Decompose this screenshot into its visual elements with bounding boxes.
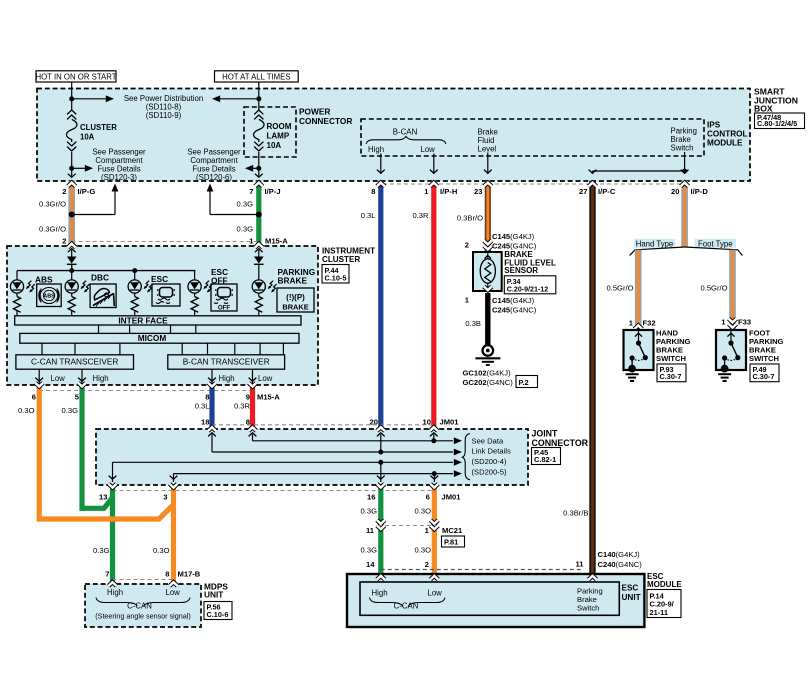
svg-text:JOINT: JOINT (532, 429, 559, 439)
svg-text:INTER FACE: INTER FACE (118, 315, 168, 325)
svg-text:(!)(P): (!)(P) (286, 293, 305, 302)
node parking brake branch (682, 169, 687, 174)
svg-text:DBC: DBC (91, 273, 109, 283)
svg-text:JM01: JM01 (440, 418, 460, 427)
node HOT IN ON OR START (36, 71, 116, 82)
svg-text:(SD120-6): (SD120-6) (196, 173, 232, 182)
svg-text:9: 9 (246, 393, 250, 402)
icon ABS warning lamp (37, 284, 62, 307)
connector line JM01 top (212, 424, 434, 426)
wire 0.3O cluster joiner (39, 506, 172, 519)
svg-text:0.3O: 0.3O (18, 406, 35, 415)
svg-text:ESC: ESC (622, 584, 639, 593)
wire 0.3G joint to ESC (378, 485, 383, 574)
label Foot Type (695, 239, 736, 248)
indicator LED ABS (16, 271, 18, 280)
node fuse details tap left (69, 166, 74, 171)
svg-text:2: 2 (425, 560, 429, 569)
svg-text:High: High (219, 374, 235, 383)
svg-text:I/P-G: I/P-G (78, 187, 96, 196)
svg-text:B-CAN TRANSCEIVER: B-CAN TRANSCEIVER (183, 356, 270, 366)
svg-text:0.3R: 0.3R (234, 402, 251, 411)
svg-text:Switch: Switch (671, 144, 694, 153)
connector line JM01 bottom (113, 490, 435, 492)
wire B-CAN Low rail (pin 8) (252, 434, 254, 441)
svg-text:HOT IN ON OR START: HOT IN ON OR START (35, 73, 116, 82)
svg-text:2: 2 (62, 187, 66, 196)
svg-text:C.20-9/21-12: C.20-9/21-12 (507, 285, 548, 293)
wire B-CAN High to pin 8 (380, 154, 382, 175)
smart junction box (SJB) enclosure (37, 89, 750, 182)
svg-text:C.30-7: C.30-7 (660, 372, 682, 381)
svg-text:0.3L: 0.3L (195, 402, 210, 411)
svg-text:0.3G: 0.3G (62, 406, 79, 415)
wire branch arrow up to fuse note left (72, 214, 115, 216)
wire C-CAN Low rail (pin 3) (174, 473, 454, 475)
svg-text:11: 11 (366, 526, 375, 535)
icon DBC downhill brake (90, 284, 116, 308)
svg-text:6: 6 (32, 393, 36, 402)
svg-text:CONTROL: CONTROL (707, 130, 747, 139)
svg-text:Low: Low (166, 588, 181, 597)
svg-text:MICOM: MICOM (138, 333, 167, 343)
block C-CAN TRANSCEIVER (16, 355, 134, 369)
wire 0.3L B-CAN High (378, 181, 383, 429)
svg-text:2: 2 (62, 237, 66, 246)
node fuse details tap right (256, 166, 261, 171)
indicator LED PARK (252, 280, 265, 293)
wire C-CAN High rail (pin 13) (113, 461, 454, 463)
svg-text:13: 13 (99, 493, 107, 502)
node rail joint 6 (432, 471, 437, 476)
wire pin 16 drop (380, 462, 382, 482)
svg-text:8: 8 (205, 393, 209, 402)
wire 0.3Br/O brake fluid level (485, 181, 491, 252)
svg-text:0.3Br/O: 0.3Br/O (457, 214, 483, 223)
svg-text:High: High (372, 589, 388, 598)
svg-text:0.3G: 0.3G (361, 507, 378, 516)
icon parking brake lamp (277, 288, 314, 312)
svg-text:Switch: Switch (577, 604, 599, 613)
IPS control module enclosure (361, 119, 704, 156)
ESC module enclosure (347, 574, 644, 627)
node I/P-G junction (69, 212, 75, 218)
svg-text:(SD120-3): (SD120-3) (101, 173, 137, 182)
svg-text:3: 3 (163, 493, 167, 502)
svg-text:C140(G4KJ): C140(G4KJ) (598, 550, 641, 559)
svg-text:C245(G4NC): C245(G4NC) (492, 306, 537, 315)
svg-text:MODULE: MODULE (647, 580, 682, 589)
wire arrow to See Power Distribution right (220, 98, 259, 100)
svg-text:0.3Gr/O: 0.3Gr/O (39, 225, 66, 234)
wire 0.3G cluster C-CAN High (79, 385, 84, 511)
connector MC21 orange (430, 520, 438, 524)
wire B-CAN Low out (252, 369, 254, 384)
resistor below LED ESCOFF (191, 297, 198, 313)
svg-text:MC21: MC21 (442, 526, 463, 535)
svg-text:Low: Low (421, 145, 436, 154)
svg-text:I/P-H: I/P-H (440, 187, 457, 196)
svg-text:C145(G4KJ): C145(G4KJ) (492, 232, 535, 241)
svg-text:Low: Low (51, 374, 66, 383)
svg-text:UNIT: UNIT (204, 590, 223, 600)
wire pin 6 drop (433, 474, 435, 482)
svg-text:I/P-D: I/P-D (691, 187, 709, 196)
svg-text:0.3L: 0.3L (361, 211, 376, 220)
svg-text:I/P-J: I/P-J (265, 187, 281, 196)
svg-text:0.3Br/B: 0.3Br/B (563, 509, 588, 518)
brace B-CAN over High Low (366, 136, 446, 143)
svg-text:CONNECTOR: CONNECTOR (532, 438, 589, 448)
foot parking brake switch F33 (716, 330, 746, 370)
block MICOM (20, 333, 299, 343)
svg-text:CLUSTER: CLUSTER (322, 255, 360, 264)
svg-text:0.3Gr/O: 0.3Gr/O (39, 200, 66, 209)
svg-text:C.82-1: C.82-1 (534, 455, 556, 464)
svg-text:High: High (107, 588, 123, 597)
wire 0.3O joint to MDPS pin 8 (171, 485, 176, 584)
wire 0.3Gr/O I/P-G (68, 181, 75, 246)
block B-CAN TRANSCEIVER (168, 355, 285, 369)
svg-text:P.2: P.2 (519, 378, 529, 387)
brace ESC C-CAN (370, 598, 404, 607)
MDPS unit enclosure (85, 584, 201, 627)
svg-text:C.80-1/2/4/5: C.80-1/2/4/5 (757, 119, 797, 128)
svg-text:GC202(G4NC): GC202(G4NC) (463, 378, 514, 387)
junction arrow into cluster at x=72 (68, 244, 76, 248)
brace data link (462, 434, 470, 480)
node power distribution tap left (69, 96, 74, 101)
node rail joint 10 (431, 438, 436, 443)
svg-text:POWER: POWER (299, 107, 330, 117)
svg-text:18: 18 (201, 418, 209, 427)
svg-text:(Steering angle sensor signal): (Steering angle sensor signal) (95, 612, 191, 621)
svg-text:0.3O: 0.3O (415, 546, 432, 555)
wire arrow to See Power Distribution (72, 98, 106, 100)
connector line I/P row (376, 183, 689, 185)
svg-text:M15-A: M15-A (257, 393, 280, 402)
power connector enclosure (244, 107, 296, 157)
wire arrow to fuse details right (252, 167, 259, 169)
svg-text:ESC: ESC (151, 274, 168, 284)
svg-text:IPS: IPS (707, 121, 721, 130)
svg-text:Low: Low (258, 374, 273, 383)
svg-text:SWITCH: SWITCH (656, 354, 686, 363)
junction arrow into cluster at x=259 (255, 244, 263, 248)
svg-text:ABS: ABS (43, 294, 55, 300)
svg-text:C.10-5: C.10-5 (325, 274, 347, 283)
svg-text:0.3B: 0.3B (465, 319, 481, 328)
wire 0.3R B-CAN Low (431, 181, 436, 429)
node rail joint 20 (378, 450, 383, 455)
joint connector enclosure (96, 429, 528, 485)
svg-text:11: 11 (575, 560, 584, 569)
svg-text:Foot Type: Foot Type (698, 239, 733, 248)
connector line M15-A bottom (39, 390, 252, 392)
svg-text:0.3O: 0.3O (153, 546, 170, 555)
svg-text:(SD200-5): (SD200-5) (472, 468, 507, 477)
indicator LED ESCOFF (194, 271, 196, 280)
svg-text:0.3G: 0.3G (361, 546, 378, 555)
wire 0.3O cluster C-CAN Low (37, 385, 42, 522)
svg-text:C.10-6: C.10-6 (207, 610, 229, 619)
svg-text:0.5Gr/O: 0.5Gr/O (700, 284, 727, 293)
wire pin 20 drop (380, 434, 382, 452)
svg-text:C-CAN: C-CAN (127, 602, 152, 611)
svg-text:10A: 10A (80, 132, 95, 141)
svg-text:0.5Gr/O: 0.5Gr/O (606, 284, 633, 293)
wire 0.3L cluster B-CAN High (209, 385, 214, 429)
connector C145/C245 pin 1 (484, 287, 492, 291)
svg-text:0.3R: 0.3R (412, 211, 429, 220)
connector line ESC row (381, 569, 583, 571)
svg-text:CLUSTER: CLUSTER (80, 123, 117, 132)
resistor below LED ABS (13, 297, 20, 313)
brace MDPS C-CAN (96, 598, 138, 607)
svg-text:Hand Type: Hand Type (636, 239, 674, 248)
svg-text:GC102(G4KJ): GC102(G4KJ) (463, 369, 512, 378)
svg-text:16: 16 (367, 493, 375, 502)
resistor below LED PARK (255, 297, 262, 313)
svg-text:BRAKE: BRAKE (278, 276, 308, 286)
svg-text:F32: F32 (643, 319, 656, 328)
wire pin 10 drop (433, 434, 435, 441)
junction arrow into I/P-J (255, 174, 263, 178)
wire parking brake switch branch (684, 152, 686, 171)
svg-text:0.3G: 0.3G (237, 225, 254, 234)
junction arrow into joint connector at x=381 (377, 427, 385, 431)
wires MICOM to transceivers (41, 343, 43, 355)
wire 0.5Gr/O foot branch (729, 250, 736, 330)
svg-text:6: 6 (426, 493, 430, 502)
connector line M17-B (113, 579, 174, 581)
junction arrow into joint connector at x=434 (430, 427, 438, 431)
hand parking brake switch F32 (624, 330, 654, 370)
wire 0.3R cluster B-CAN Low (250, 385, 255, 429)
label Hand Type (634, 239, 675, 248)
wire split to foot type (685, 247, 743, 256)
svg-text:23: 23 (474, 187, 482, 196)
wire cluster lamp bus (17, 270, 196, 272)
svg-text:21-11: 21-11 (650, 608, 669, 617)
connector C145/C245 pin 2 (484, 241, 492, 245)
wire B-CAN Low to pin 1 (433, 154, 435, 175)
junction arrow into I/P-G (68, 174, 76, 178)
svg-text:0.3G: 0.3G (237, 200, 254, 209)
junction arrow into joint connector at x=252 (249, 427, 257, 431)
wire 0.3G joint to MDPS pin 7 (110, 485, 115, 584)
indicator LED DBC (65, 280, 78, 293)
wire fuse to I/P-J (258, 152, 260, 177)
brake fluid level sensor BOX (473, 252, 502, 291)
svg-text:14: 14 (366, 560, 375, 569)
svg-text:M17-B: M17-B (178, 570, 201, 579)
instrument cluster enclosure (7, 246, 318, 385)
svg-text:SENSOR: SENSOR (504, 266, 538, 275)
resistor below LED DBC (68, 297, 75, 313)
svg-text:HOT AT ALL TIMES: HOT AT ALL TIMES (222, 73, 290, 82)
wire 0.3B to ground (485, 293, 490, 345)
wire fuse to I/P-G (71, 152, 73, 177)
block INTER FACE (15, 316, 301, 325)
svg-text:F33: F33 (738, 318, 751, 327)
fuse ROOM LAMP 10A (254, 110, 263, 114)
svg-text:8: 8 (165, 570, 169, 579)
svg-text:High: High (93, 374, 109, 383)
svg-text:Low: Low (428, 589, 443, 598)
wire 0.3O joint to ESC (432, 485, 437, 574)
svg-text:ROOM: ROOM (267, 122, 292, 131)
wire 0.5Gr/O hand branch (635, 250, 642, 330)
svg-text:C-CAN TRANSCEIVER: C-CAN TRANSCEIVER (31, 356, 118, 366)
svg-text:Link Details: Link Details (472, 447, 511, 456)
wire B-CAN High out (211, 369, 213, 384)
junction arrow into joint connector at x=212 (208, 427, 216, 431)
svg-text:See Data: See Data (472, 437, 504, 446)
svg-text:BRAKE: BRAKE (282, 303, 308, 312)
svg-text:(SD110-9): (SD110-9) (146, 111, 182, 120)
wire C-CAN High out (81, 369, 83, 384)
node bus junction ESC (132, 268, 137, 273)
svg-text:OFF: OFF (218, 305, 231, 312)
wire branch to I/P-D pin 20 (684, 171, 686, 174)
node power distribution tap right (256, 96, 261, 101)
connector line MC21 (378, 525, 436, 527)
wire C-CAN Low out (38, 369, 40, 384)
ESC unit inner block (360, 582, 619, 615)
wire 0.3Br/B I/P-C (589, 181, 595, 574)
svg-text:7: 7 (105, 570, 109, 579)
node bus junction DBC (69, 268, 74, 273)
svg-text:C-CAN: C-CAN (394, 602, 419, 611)
svg-text:MODULE: MODULE (707, 139, 743, 148)
svg-text:7: 7 (249, 187, 253, 196)
svg-text:B-CAN: B-CAN (393, 128, 418, 137)
svg-text:M15-A: M15-A (265, 237, 288, 246)
svg-text:27: 27 (579, 187, 587, 196)
icon ESC stability (152, 284, 180, 306)
resistor below LED ESC (131, 297, 138, 313)
svg-text:C145(G4KJ): C145(G4KJ) (492, 296, 535, 305)
node HOT AT ALL TIMES (215, 71, 299, 82)
connector line M15-A top (72, 241, 259, 243)
sensor internal element (487, 252, 489, 259)
indicator LED ESC (134, 271, 136, 280)
svg-text:I/P-C: I/P-C (598, 187, 616, 196)
wire 0.3G cluster joiner (82, 498, 113, 509)
svg-text:10A: 10A (267, 141, 282, 150)
diode at x=72 (67, 257, 77, 264)
svg-text:UNIT: UNIT (622, 593, 641, 602)
node I/P-J junction (256, 212, 262, 218)
fuse CLUSTER 10A (67, 110, 76, 114)
svg-text:8: 8 (371, 187, 375, 196)
icon ESC OFF (211, 284, 237, 311)
svg-text:CONNECTOR: CONNECTOR (299, 116, 352, 126)
svg-text:P.81: P.81 (444, 538, 458, 547)
wire arrow to fuse details left (72, 167, 85, 169)
svg-text:20: 20 (671, 187, 679, 196)
diode at x=259 (254, 257, 264, 264)
svg-text:0.3G: 0.3G (93, 546, 110, 555)
wire from HOT AT ALL TIMES (258, 82, 260, 110)
wire B-CAN High rail (pin 18) (211, 434, 213, 452)
wire 0.3G I/P-J (256, 181, 261, 246)
ground GC102/GC202 (483, 345, 494, 356)
wire branch arrow up to fuse note right (210, 214, 259, 216)
connector MC21 green (377, 520, 385, 524)
wire 0.5Gr/O I/P-D (681, 181, 688, 248)
node rail joint 16 (378, 460, 383, 465)
wire from HOT IN ON OR START (71, 82, 73, 110)
svg-text:LAMP: LAMP (267, 132, 290, 141)
svg-text:2: 2 (465, 241, 469, 250)
wire split to hand type (630, 247, 685, 256)
svg-text:JM01: JM01 (442, 493, 462, 502)
svg-text:Level: Level (478, 145, 497, 154)
svg-text:(SD200-4): (SD200-4) (472, 457, 507, 466)
svg-text:C.30-7: C.30-7 (753, 372, 775, 381)
svg-text:SWITCH: SWITCH (749, 354, 779, 363)
svg-text:ABS: ABS (35, 275, 53, 285)
wire brake fluid level to pin 23 (487, 153, 489, 175)
wires INTER FACE to MICOM (98, 325, 100, 333)
svg-text:0.3O: 0.3O (415, 507, 432, 516)
svg-text:C240(G4NC): C240(G4NC) (598, 560, 643, 569)
svg-text:High: High (368, 145, 384, 154)
wire branch to I/P-C pin 27 (593, 170, 685, 172)
